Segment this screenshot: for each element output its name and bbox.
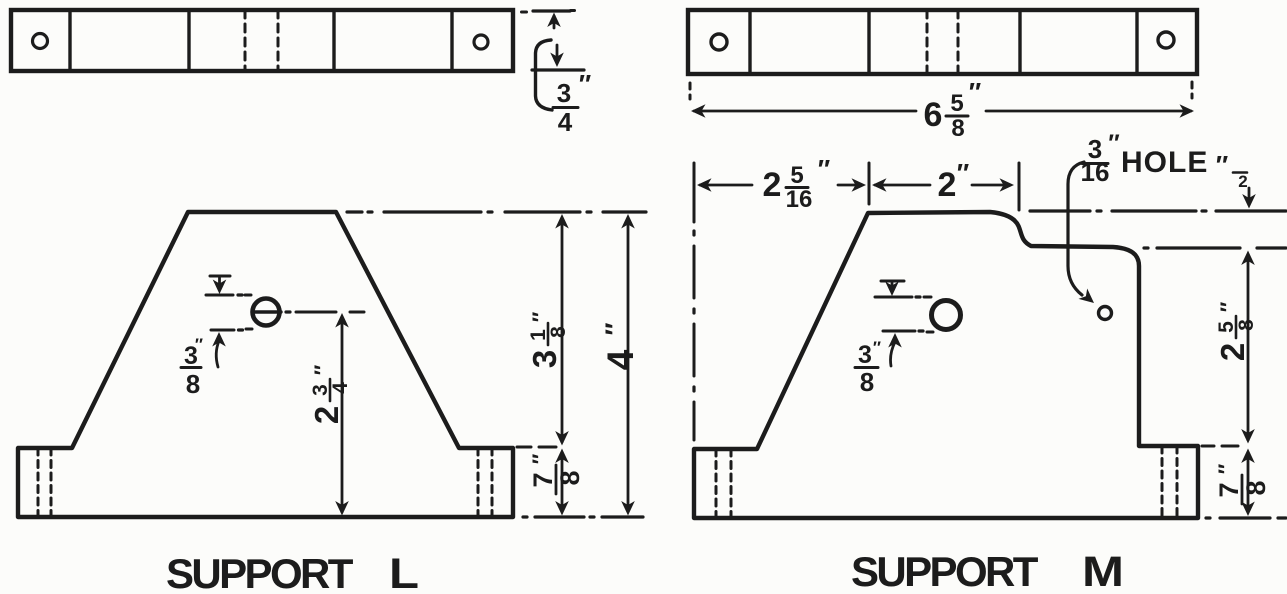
- svg-text:2: 2: [308, 406, 345, 424]
- label 3/8 inch (support M): [855, 338, 881, 397]
- bar L hole left: [33, 34, 48, 49]
- svg-text:SUPPORT: SUPPORT: [166, 550, 354, 594]
- small hole (3/16): [1099, 307, 1112, 320]
- support M top centre line: [1030, 209, 1286, 212]
- svg-text:″: ″: [1108, 130, 1120, 157]
- support M hole dim bottom tangent: [883, 331, 933, 332]
- support M hole dim arrow down: [885, 282, 899, 297]
- label 1/2 inch: [1216, 150, 1248, 191]
- support L outline: [18, 212, 513, 517]
- svg-text:7: 7: [1214, 482, 1244, 497]
- leader to small hole: [1068, 162, 1094, 303]
- bar L divider 3: [332, 10, 335, 71]
- bar L divider 2: [187, 10, 190, 71]
- bar L outline: [11, 10, 513, 71]
- support M right foot hidden line 1: [1161, 446, 1164, 518]
- svg-text:″: ″: [528, 311, 553, 322]
- dim 1/2 arrow: [1242, 188, 1256, 209]
- support L hole centre line: [286, 310, 364, 313]
- svg-text:M: M: [1082, 548, 1124, 594]
- svg-text:″: ″: [1214, 463, 1239, 474]
- svg-text:HOLE: HOLE: [1121, 146, 1208, 179]
- label 2 inch: [938, 158, 970, 204]
- svg-text:″: ″: [818, 154, 830, 184]
- support M base centre line: [1206, 516, 1286, 519]
- label 6-5/8 inch: [924, 77, 982, 142]
- bar M hole right: [1158, 32, 1174, 48]
- svg-text:8: 8: [860, 367, 874, 397]
- support L hole dim arrow down: [213, 278, 227, 294]
- dim 2-5/8 and 7/8 line: [1241, 251, 1255, 517]
- support L hole dim top tick: [210, 275, 230, 278]
- dim 3/4 arrow up: [547, 13, 561, 29]
- support L left foot hidden line 1: [37, 448, 40, 517]
- svg-text:″: ″: [969, 77, 981, 107]
- bar L hole right: [474, 35, 488, 49]
- dim 2-3/4 line: [335, 313, 349, 516]
- support L hole dim top tangent: [206, 294, 251, 297]
- svg-text:″: ″: [873, 338, 881, 357]
- svg-text:4: 4: [329, 382, 352, 394]
- label 3/8 inch (support L): [181, 335, 203, 399]
- support M hole dim top tangent: [875, 296, 931, 299]
- support M left foot hidden line 2: [730, 449, 733, 518]
- svg-text:SUPPORT: SUPPORT: [851, 548, 1039, 594]
- label 3-1/8 inch: [526, 311, 570, 368]
- svg-text:8: 8: [186, 369, 200, 399]
- svg-text:2: 2: [1238, 172, 1247, 191]
- bar M divider 3: [1018, 10, 1021, 74]
- bar M hidden line 2: [957, 10, 960, 74]
- svg-text:3: 3: [858, 341, 872, 369]
- dim 3/4 top extension line: [533, 9, 575, 13]
- svg-text:3: 3: [557, 78, 571, 108]
- svg-text:5: 5: [950, 90, 963, 117]
- label 7/8 inch (support M): [1214, 463, 1271, 504]
- dim 6-5/8 right extension: [1191, 82, 1194, 98]
- dim 6-5/8 left extension: [689, 83, 692, 99]
- support L right foot hidden line 2: [491, 448, 494, 517]
- svg-text:7: 7: [528, 472, 558, 487]
- support M left extension line: [693, 163, 696, 440]
- label 7/8 inch (support L): [528, 453, 585, 494]
- svg-text:8: 8: [1241, 480, 1271, 495]
- svg-text:″: ″: [528, 453, 553, 464]
- svg-text:5: 5: [790, 162, 803, 189]
- label 3/4 inch: [553, 69, 591, 137]
- label 2-5/8 inch: [1214, 301, 1258, 361]
- support M hole dim top tick: [881, 280, 904, 283]
- dim 3/4 ext dot: [522, 11, 527, 14]
- svg-text:4: 4: [558, 107, 573, 137]
- label 2-5/16 inch: [763, 154, 831, 213]
- support L hole: [253, 299, 280, 326]
- svg-text:8: 8: [555, 470, 585, 485]
- svg-text:8: 8: [1235, 319, 1258, 331]
- svg-text:4: 4: [600, 349, 641, 370]
- bar M divider 2: [867, 10, 870, 74]
- support L left foot hidden line 2: [50, 448, 53, 517]
- dim 3/4 bottom extension line: [532, 68, 584, 71]
- svg-text:″: ″: [1216, 150, 1228, 180]
- support L foot line extension: [517, 446, 556, 449]
- dim 3/4 arrow down: [550, 45, 564, 67]
- bar M divider 4: [1135, 10, 1138, 74]
- svg-text:8: 8: [547, 326, 570, 338]
- svg-text:″: ″: [310, 364, 335, 375]
- dim 4 line: [621, 214, 635, 516]
- svg-text:6: 6: [924, 96, 943, 134]
- dim 3-1/8 and 7/8 line: [555, 214, 569, 516]
- svg-text:8: 8: [951, 115, 964, 142]
- svg-text:16: 16: [786, 186, 813, 213]
- support L right foot hidden line 1: [477, 448, 480, 517]
- svg-text:3: 3: [526, 350, 563, 368]
- bar L hidden line 2: [277, 10, 280, 71]
- dim 3/4 bracket: [536, 40, 553, 110]
- svg-text:″: ″: [195, 335, 203, 354]
- support L base centre line: [523, 515, 643, 518]
- support L hole centre bar: [254, 310, 281, 313]
- label 2-3/4 inch: [308, 364, 352, 424]
- bar L divider 4: [450, 10, 453, 71]
- support L hole dim arrow up: [212, 332, 226, 367]
- dim 6-5/8 line left: [691, 104, 916, 118]
- bar M divider 1: [748, 10, 751, 74]
- bar M outline: [688, 10, 1197, 74]
- dim 2 line: [872, 178, 1014, 192]
- support M step extension line: [1018, 163, 1021, 210]
- svg-text:2: 2: [1214, 343, 1251, 361]
- bar M hole left: [711, 34, 727, 50]
- support L hole dim bottom tangent: [211, 329, 252, 330]
- bar L hidden line 1: [244, 10, 247, 71]
- label 4 inch: [600, 322, 641, 370]
- support M hole: [932, 301, 961, 330]
- svg-text:″: ″: [600, 322, 630, 335]
- dim 6-5/8 line right: [986, 104, 1194, 118]
- support M foot line extension: [1202, 445, 1238, 448]
- svg-text:2: 2: [938, 166, 957, 204]
- caption SUPPORT M: [851, 548, 1124, 594]
- bar M hidden line 1: [926, 10, 929, 74]
- bar L divider 1: [68, 10, 71, 71]
- support M right foot hidden line 2: [1176, 446, 1179, 518]
- support M ledge centre line: [1144, 246, 1286, 249]
- dim 2-5/16 line: [697, 178, 866, 192]
- support M hole dim arrow up: [888, 333, 902, 366]
- label 3/16 inch HOLE: [1081, 130, 1209, 187]
- svg-text:″: ″: [957, 158, 969, 188]
- svg-text:″: ″: [579, 69, 591, 99]
- support L top centre line: [347, 210, 646, 213]
- svg-text:″: ″: [1216, 301, 1241, 312]
- svg-text:L: L: [389, 550, 419, 594]
- support M left foot hidden line 1: [715, 449, 718, 518]
- support M corner extension line: [868, 163, 871, 204]
- svg-text:2: 2: [763, 166, 782, 204]
- support M outline: [694, 212, 1198, 518]
- caption SUPPORT L: [166, 550, 419, 594]
